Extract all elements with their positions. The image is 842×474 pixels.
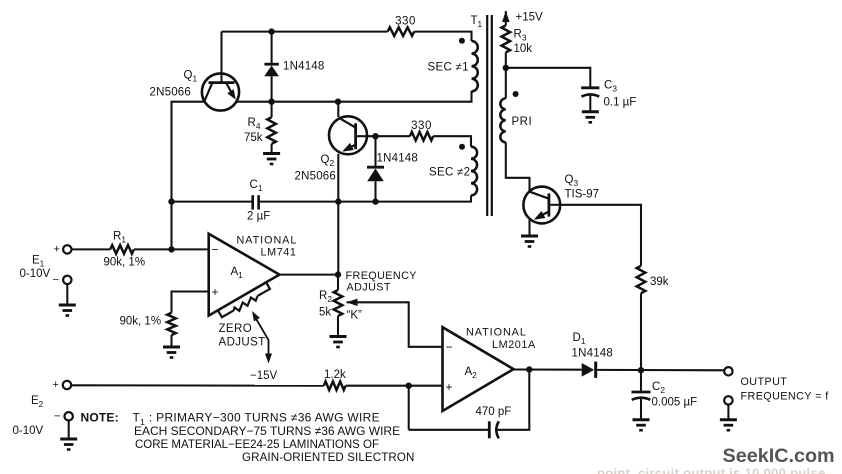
capacitor C1 left plate (251, 195, 254, 209)
diode D1 triangle (582, 363, 595, 377)
node dot diode2 anode on C1 rail (372, 198, 378, 204)
wire output node to C2 (640, 370, 642, 391)
wire C2 to ground (640, 398, 642, 419)
svg-text:SEC ≠2: SEC ≠2 (429, 167, 470, 179)
diode 1N4148 (upper) triangle (264, 66, 279, 77)
transformer PRI polarity dot (513, 91, 519, 97)
svg-text:10k: 10k (514, 43, 533, 55)
wire R2 wiper to A2 minus input (347, 302, 443, 347)
svg-text:75k: 75k (244, 132, 263, 144)
transistor Q1 base bar (209, 81, 235, 84)
ground below E2 minus (60, 439, 77, 450)
wire C1 rail right segment to SEC2 bottom (259, 195, 471, 201)
wire 330 lower to SEC2 top (433, 136, 471, 146)
node dot A1 output (335, 271, 341, 277)
svg-text:+: + (54, 244, 60, 256)
ground below R4 (263, 154, 280, 165)
resistor 1.2k (324, 381, 346, 390)
wire R3 to PRI node (505, 52, 507, 98)
transformer T1 core line right (491, 15, 493, 216)
svg-text:CORE MATERIAL−EE24-25 LAMINATI: CORE MATERIAL−EE24-25 LAMINATIONS OF (135, 439, 379, 451)
svg-text:SeekIC.com: SeekIC.com (723, 445, 835, 467)
svg-text:+15V: +15V (516, 12, 544, 24)
diode 1N4148 (upper) cathode lead (271, 32, 273, 63)
diode 1N4148 (middle) cathode lead (374, 136, 376, 166)
op-amp A2 triangle (443, 327, 514, 411)
zero adjust wiper arrowhead to pot (252, 311, 260, 321)
svg-text:ZERO: ZERO (219, 323, 253, 335)
transistor Q1 emitter arrowhead (227, 89, 236, 100)
svg-text:TIS-97: TIS-97 (565, 189, 600, 201)
wire A1 output to node (279, 274, 338, 276)
wire 90k to ground (170, 335, 172, 346)
wire E2 to 1.2k (71, 384, 324, 386)
svg-text:90k, 1%: 90k, 1% (104, 257, 146, 269)
capacitor C1 right plate (257, 195, 260, 209)
node dot Q2 base (372, 133, 378, 139)
svg-text:NOTE:: NOTE: (81, 411, 119, 425)
svg-text:−: − (212, 243, 219, 257)
transistor Q2 emitter diagonal (345, 145, 356, 151)
resistor R3 10k (502, 25, 511, 52)
svg-text:FREQUENCY = f: FREQUENCY = f (741, 391, 830, 403)
transistor Q3 bar (548, 193, 551, 216)
capacitor 470pF flat plate (488, 421, 491, 438)
zero adjust arrowhead to -15V (265, 354, 272, 364)
svg-text:+: + (212, 285, 219, 299)
node dot top rail diode D (268, 28, 274, 34)
svg-text:−15V: −15V (250, 370, 278, 382)
ground below R2 (330, 337, 347, 348)
transformer SEC1 polarity dot (459, 38, 465, 44)
transistor Q3 emitter arrowhead (534, 211, 546, 220)
op-amp A1 triangle (209, 234, 280, 316)
svg-text:EACH SECONDARY−75 TURNS ≠36 AW: EACH SECONDARY−75 TURNS ≠36 AWG WIRE (134, 424, 400, 438)
svg-text:−: − (53, 274, 59, 286)
wire C1 rail left segment (172, 201, 253, 203)
ground below Q3 (521, 236, 538, 247)
wire +15V arrow to R3 (505, 11, 507, 25)
capacitor C2 top plate (632, 391, 651, 394)
svg-text:2 µF: 2 µF (247, 211, 270, 223)
ground below C2 (633, 420, 650, 431)
svg-text:+: + (446, 380, 453, 394)
svg-text:90k, 1%: 90k, 1% (120, 316, 162, 328)
ground below output terminal (720, 420, 737, 431)
svg-text:NATIONAL: NATIONAL (466, 327, 527, 339)
svg-text:PRI: PRI (512, 116, 533, 128)
resistor 330 (lower, SEC2) (410, 132, 433, 141)
transformer T1 PRI winding (500, 98, 505, 142)
wire node to R2 (337, 275, 339, 290)
transformer T1 SEC2 winding (471, 147, 477, 196)
terminal output bottom (724, 396, 732, 404)
transistor Q1 collector diagonal (205, 84, 213, 102)
terminal E2 minus (65, 412, 73, 420)
resistor R1 90k (110, 245, 134, 254)
node dot A2 output (526, 366, 532, 372)
svg-text:GRAIN-ORIENTED SILECTRON: GRAIN-ORIENTED SILECTRON (242, 451, 414, 464)
wire feedback bottom left segment (409, 429, 488, 431)
diode 1N4148 (middle) triangle (367, 169, 384, 182)
node dot C1 left at x=171.5 (168, 198, 174, 204)
svg-text:5k: 5k (319, 307, 331, 319)
wire feedback node down (408, 386, 410, 430)
transformer T1 core line left (486, 15, 488, 216)
svg-text:“K”: “K” (347, 310, 363, 322)
capacitor C3 curved plate (581, 94, 599, 96)
svg-text:0.005 µF: 0.005 µF (652, 397, 698, 409)
wire top rail from Q1 to 330 ohm resistor (222, 31, 388, 33)
svg-text:FREQUENCY: FREQUENCY (346, 270, 417, 282)
transistor Q2 collector diagonal (339, 118, 356, 128)
transistor Q1 emitter diagonal (227, 84, 235, 98)
wire Q2 emitter down to C1 rail (337, 154, 339, 202)
transistor Q1 base lead from top rail (220, 32, 222, 84)
transistor Q3 collector diagonal (530, 192, 549, 199)
node dot R1 / C1 branch (168, 246, 174, 252)
wire emitter rail to R4 (271, 102, 273, 118)
svg-text:1N4148: 1N4148 (377, 153, 418, 165)
svg-text:330: 330 (395, 16, 416, 28)
node dot Q2 collector on emitter rail (335, 99, 341, 105)
svg-text:SEC ≠1: SEC ≠1 (428, 62, 469, 74)
transformer SEC2 polarity dot (459, 144, 465, 150)
capacitor C2 curved plate (632, 398, 651, 400)
supply +15V arrow (502, 11, 510, 22)
transformer T1 SEC1 winding (471, 41, 477, 91)
wire node up to C1 rail (337, 202, 339, 275)
diode 1N4148 (middle) anode lead (374, 181, 376, 201)
svg-text:0-10V: 0-10V (13, 425, 44, 437)
transistor Q1 circle (202, 73, 239, 110)
wire E1 to R1 (72, 248, 111, 250)
terminal E1 minus (63, 276, 71, 284)
svg-text:ADJUST: ADJUST (347, 282, 391, 294)
transistor Q3 emitter diagonal (537, 211, 549, 218)
wire R2 to ground (337, 316, 339, 336)
wire A2 output (514, 368, 582, 370)
wire A1 plus input (172, 292, 209, 313)
svg-text:2N5066: 2N5066 (150, 87, 191, 99)
svg-text:1N4148: 1N4148 (572, 348, 613, 360)
resistor 90k 1% (non-inverting) (167, 313, 176, 335)
resistor 330 (top, SEC1) (388, 27, 415, 36)
diode 1N4148 (middle) cathode bar (367, 166, 384, 169)
wire PRI bottom to Q3 collector (506, 142, 530, 191)
wire E2 minus to ground (68, 421, 70, 439)
terminal output top (724, 367, 732, 375)
svg-text:LM741: LM741 (261, 247, 297, 259)
wire Q3 emitter to ground (528, 219, 530, 235)
node dot Q2 emitter on C1 rail (335, 198, 341, 204)
R2 wiper arrowhead (347, 299, 358, 307)
transistor Q2 circle (329, 116, 367, 154)
svg-text:−: − (54, 411, 60, 423)
diode 1N4148 (upper) cathode bar (264, 63, 278, 66)
diode D1 cathode bar (594, 362, 597, 378)
wire output bottom terminal to ground (727, 405, 729, 419)
potentiometer zero adjust on A1 (218, 282, 270, 317)
wire D1 to output node (597, 369, 728, 371)
svg-text:ADJUST: ADJUST (219, 337, 266, 349)
svg-text:39k: 39k (650, 276, 669, 288)
resistor R2 5k (334, 290, 343, 316)
svg-text:NATIONAL: NATIONAL (237, 235, 298, 247)
svg-text:2N5066: 2N5066 (295, 171, 336, 183)
wire Q2 base node to 330 (lower) (376, 135, 410, 137)
svg-text:0-10V: 0-10V (20, 268, 51, 280)
wire E1 minus to ground (66, 284, 68, 304)
svg-text:0.1 µF: 0.1 µF (604, 97, 637, 109)
svg-text:330: 330 (411, 120, 432, 132)
wire C3 to ground (589, 95, 591, 111)
svg-text:+: + (53, 379, 59, 391)
resistor R4 75k (267, 117, 276, 144)
wire R1 to A1 minus input (134, 248, 209, 250)
wire 1.2k to A2 plus input (346, 385, 443, 387)
svg-text:−: − (446, 340, 453, 354)
wire Q1 collector to left and down to R1 node (172, 102, 205, 250)
wire 39k to output node (640, 293, 642, 370)
node dot output (638, 367, 644, 373)
wire node to C3 (506, 68, 591, 87)
transistor Q2 base lead (356, 135, 376, 137)
transistor Q2 emitter arrowhead (342, 143, 354, 152)
capacitor 470pF curved plate (496, 421, 499, 438)
transistor Q3 circle (523, 187, 560, 224)
svg-text:1N4148: 1N4148 (283, 61, 324, 73)
diode 1N4148 (upper) anode lead (271, 76, 273, 102)
ground below C3 (582, 112, 599, 123)
wire R4 to ground (271, 144, 273, 153)
svg-text:OUTPUT: OUTPUT (741, 376, 788, 388)
wire Q2 collector up to emitter rail (337, 102, 339, 117)
svg-text:1.2k: 1.2k (324, 369, 346, 381)
wire Q3 base to 39k rail (560, 205, 641, 266)
svg-text:470 pF: 470 pF (476, 406, 512, 418)
svg-text:LM201A: LM201A (492, 339, 536, 351)
zero adjust wiper line (254, 315, 269, 358)
resistor 39k (637, 266, 646, 293)
transistor Q2 bar (354, 123, 357, 149)
terminal E2 plus (63, 381, 71, 389)
node dot diode/R4 on emitter rail (268, 99, 274, 105)
capacitor C3 top plate (581, 86, 599, 89)
node dot feedback on E2 wire (406, 383, 412, 389)
node dot R3/PRI/C3 (503, 65, 509, 71)
ground below 90k (163, 347, 180, 358)
terminal E1 plus (63, 245, 71, 253)
ground below E1 minus (59, 305, 76, 316)
wire feedback cap to A2 output (498, 370, 530, 430)
transistor Q3 base lead (549, 204, 560, 206)
wire 330 to T1 SEC1 top corner (414, 32, 471, 41)
svg-text:point, circuit output is 10,00: point, circuit output is 10,000 pulse (597, 466, 826, 474)
wire Q1 emitter to SEC1 bottom return (236, 91, 471, 102)
